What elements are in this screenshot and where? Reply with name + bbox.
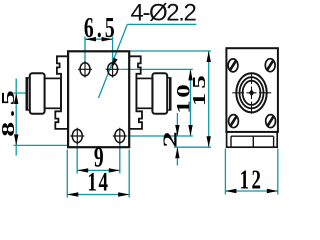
right connector collar [136, 78, 152, 108]
right connector nut [152, 73, 167, 114]
dim 12 arrows [225, 189, 236, 193]
dim 8.5 extension horizontals [14, 93, 68, 145]
dim 12 extension verticals [225, 149, 277, 195]
center connector rings [236, 73, 266, 112]
svg-text:14: 14 [87, 168, 109, 197]
leader arrow to hole [109, 58, 117, 70]
body below flange [227, 132, 278, 147]
left washer thick edge [26, 78, 28, 110]
dim 10 extension horizontals [120, 69, 193, 136]
dim 9 line [77, 169, 120, 171]
screw bottom-left [229, 115, 239, 128]
crosshair center lines [232, 92, 271, 94]
screw bottom-right [266, 115, 276, 128]
dim 8.5 arrows [14, 93, 18, 104]
svg-text:15: 15 [189, 71, 209, 106]
dim 15 vertical line [208, 51, 210, 147]
left connector washer [26, 78, 30, 110]
dim 14 arrows [67, 192, 78, 196]
dim 14 line [67, 194, 129, 196]
dim 10 vertical line [190, 69, 192, 136]
right flange plate edge with hole notches [129, 56, 142, 129]
dim 6.5 line [85, 38, 113, 40]
mounting hole top-right [106, 61, 120, 77]
svg-text:4-Ø2.2: 4-Ø2.2 [131, 0, 197, 27]
dim 6.5 extension lines [14, 24, 278, 197]
dim 8.5 vertical line with tails [15, 79, 17, 156]
mounting hole bottom-left [70, 128, 84, 144]
screw top-right [265, 59, 275, 72]
dim 10 arrows [188, 69, 192, 80]
dim 9 extension verticals [77, 144, 120, 174]
dim 12 line [225, 190, 277, 192]
right washer thick edge [169, 78, 171, 110]
left connector nut [30, 73, 45, 114]
main block body [68, 51, 129, 147]
dim 2 arrow tails [176, 113, 178, 166]
svg-text:12: 12 [240, 165, 264, 195]
mounting hole top-left [78, 61, 92, 77]
svg-text:2: 2 [159, 131, 181, 147]
dim 15 extension horizontals [130, 51, 211, 147]
dim 6.5 arrows [85, 37, 96, 41]
dim 2 outside arrows [175, 125, 179, 136]
body inner lines [231, 136, 274, 147]
dim 14 extension verticals [67, 150, 129, 198]
underline 4-o2.2 [127, 23, 196, 25]
flange plate [226, 48, 278, 132]
svg-text:8.5: 8.5 [0, 86, 18, 137]
center pin [249, 89, 254, 96]
right connector washer [167, 78, 171, 110]
leader line 4-o2.2 [99, 24, 128, 98]
screw top-left [228, 59, 238, 72]
dim 15 arrows [207, 51, 211, 62]
left flange plate edge with hole notches [55, 56, 68, 129]
dim 9 arrows [77, 168, 88, 172]
left connector collar [45, 78, 61, 108]
mounting hole bottom-right [113, 128, 127, 144]
svg-text:6.5: 6.5 [84, 13, 118, 44]
